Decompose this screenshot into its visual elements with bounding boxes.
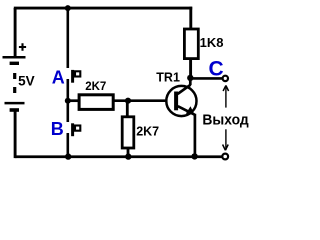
wire bottom rail <box>15 155 222 158</box>
node R2 bottom rail junction <box>125 153 131 159</box>
resistor R2 2K7 vertical <box>122 117 159 148</box>
wire input column middle segment <box>67 79 70 122</box>
plate long thin 1 <box>3 56 26 59</box>
resistor R3 1K8 vertical <box>184 29 223 59</box>
pin B <box>73 123 81 136</box>
battery BT1 5V <box>3 43 35 110</box>
wire battery top lead <box>14 8 17 57</box>
collector wire into circle <box>189 78 192 85</box>
plate short thick 1 <box>10 62 19 65</box>
transistor TR1 <box>156 70 196 116</box>
wire R2 bottom lead <box>127 148 130 157</box>
svg-text:C: C <box>209 58 224 81</box>
svg-text:TR1: TR1 <box>156 70 180 84</box>
terminal C circle <box>223 76 228 81</box>
arrow up to C <box>223 85 229 107</box>
wire top rail corner to R3 <box>189 7 192 30</box>
node collector junction <box>187 75 193 81</box>
wire R1 to transistor base <box>113 99 166 102</box>
wire junction to R1 <box>68 99 80 102</box>
plate short thick 2 <box>10 108 19 112</box>
node R2 top junction <box>125 98 131 104</box>
wire collector junction to C terminal <box>190 77 222 80</box>
node bottom rail junction <box>65 153 71 159</box>
emitter arrowhead <box>186 106 195 114</box>
wire R3 to collector junction <box>189 58 192 79</box>
svg-text:5V: 5V <box>18 74 35 89</box>
terminal bottom output circle <box>222 154 228 160</box>
arrow down to bottom terminal <box>223 129 229 150</box>
plus sign <box>19 43 26 51</box>
node emitter rail junction <box>191 153 197 159</box>
dash 1 <box>13 73 16 79</box>
wire emitter to bottom rail <box>194 114 197 157</box>
svg-text:B: B <box>51 119 64 139</box>
svg-text:2K7: 2K7 <box>136 125 159 139</box>
base bar <box>174 92 178 111</box>
svg-text:A: A <box>52 68 65 88</box>
svg-text:Выход: Выход <box>202 111 249 128</box>
svg-text:2K7: 2K7 <box>85 81 106 93</box>
wire battery bottom lead <box>14 110 17 158</box>
svg-text:1K8: 1K8 <box>200 35 224 50</box>
dash 2 <box>13 87 16 93</box>
wire input column bottom segment <box>67 133 70 157</box>
plate long thin 2 <box>5 102 25 105</box>
wire top rail <box>14 7 192 10</box>
node input column / R1 junction <box>65 98 71 104</box>
pin A <box>73 70 81 83</box>
resistor R1 2K7 horizontal <box>79 81 113 109</box>
wire input column top segment <box>67 8 70 68</box>
emitter diagonal <box>178 106 195 115</box>
node top rail junction <box>65 5 71 11</box>
collector diagonal <box>178 85 191 94</box>
wire junction to R2 <box>126 101 129 117</box>
